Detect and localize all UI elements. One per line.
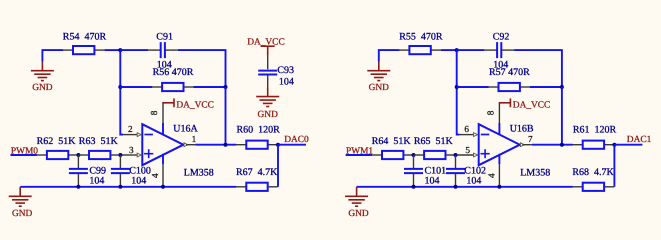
wire: feedback column down to output [561, 87, 563, 145]
junction: C99 bottom [76, 185, 80, 189]
svg-text:4: 4 [150, 173, 160, 178]
pin 8 (V+) [162, 123, 164, 135]
svg-text:1: 1 [192, 134, 197, 144]
capacitor C92 104 [484, 49, 497, 51]
svg-text:GND: GND [258, 110, 279, 120]
pin 1 (output) [184, 143, 188, 147]
junction: R57 left [455, 85, 459, 89]
junction: C101 bottom [412, 185, 416, 189]
ground GND (decoupling) [267, 87, 269, 97]
resistor R61 120R [573, 144, 583, 146]
wire: C91 to feedback column [178, 50, 226, 87]
svg-text:R56 470R: R56 470R [153, 67, 194, 78]
svg-text:DAC0: DAC0 [284, 135, 309, 145]
svg-text:LM358: LM358 [520, 168, 550, 179]
svg-text:104: 104 [279, 77, 294, 88]
wire: node B column down to pin6 corner [457, 50, 460, 135]
power DA_VCC at pin 8 [499, 102, 511, 104]
junction: C99 top [76, 153, 80, 157]
wire: R55 to node B [441, 49, 457, 51]
svg-text:C93: C93 [277, 65, 294, 76]
wire: R56 to feedback column [194, 86, 226, 88]
svg-text:104: 104 [466, 175, 481, 186]
junction: feedback column at R56 [224, 85, 228, 89]
pin 5 (non-inverting input) [457, 154, 473, 156]
pin 3 (non-inverting input) [121, 154, 137, 156]
junction: feedback at output [560, 143, 564, 147]
capacitor C101 [413, 155, 415, 169]
svg-text:GND: GND [369, 83, 390, 93]
svg-text:R65 51K: R65 51K [414, 136, 454, 147]
junction: C100 top [118, 153, 122, 157]
svg-text:U16B: U16B [510, 123, 534, 134]
pin 2 (inverting input) [123, 134, 137, 136]
capacitor C93 104 [267, 56, 269, 69]
svg-text:4: 4 [487, 173, 497, 178]
pin 7 (output) [520, 143, 524, 147]
wire: GND stub to R54 [42, 50, 63, 61]
wire: junction to R57 [457, 86, 489, 88]
junction: C100 bottom [118, 185, 122, 189]
wire: DAC0 net [278, 144, 306, 146]
resistor R65 [414, 154, 424, 156]
svg-text:5: 5 [465, 145, 470, 155]
capacitor C102 [455, 155, 457, 169]
svg-text:DA_VCC: DA_VCC [513, 100, 551, 110]
junction: feedback column at R57 [560, 85, 564, 89]
svg-text:GND: GND [348, 209, 369, 219]
svg-text:2: 2 [128, 124, 133, 134]
junction: C102 bottom [454, 185, 458, 189]
wire: node A column down to pin2 corner [120, 50, 123, 135]
ground GND (bias, left of R55) [378, 61, 380, 70]
wire: R54 to node A [105, 49, 121, 51]
svg-text:8: 8 [149, 110, 159, 115]
junction: DAC0 node [276, 143, 280, 147]
wire: PWM1 to R64 [346, 154, 372, 156]
svg-text:R57 470R: R57 470R [489, 67, 530, 78]
power DA_VCC at pin 8 [162, 102, 174, 104]
svg-text:R63 51K: R63 51K [79, 136, 119, 147]
svg-text:R62 51K: R62 51K [37, 136, 77, 147]
wire: node A to C91 [120, 49, 148, 51]
svg-text:R55 470R: R55 470R [399, 31, 443, 42]
svg-text:C92: C92 [493, 32, 510, 43]
resistor R55 470R [399, 49, 409, 51]
wire: DAC1 node down to R68 [613, 145, 615, 187]
svg-text:DAC1: DAC1 [627, 135, 652, 145]
resistor R68 4.7K [573, 186, 583, 188]
svg-text:104: 104 [425, 175, 440, 186]
junction: pin 4 at rail [497, 185, 501, 189]
svg-text:GND: GND [32, 83, 53, 93]
svg-text:R54 470R: R54 470R [63, 31, 107, 42]
wire: PWM0 to R62 [11, 154, 37, 156]
svg-text:104: 104 [131, 175, 146, 186]
wire: junction to R56 [120, 86, 152, 88]
wire: DAC0 node down to R67 [277, 145, 279, 187]
junction: feedback at output [224, 143, 228, 147]
wire: GND stub to R55 [379, 50, 400, 61]
junction: R56 left [118, 85, 122, 89]
resistor R56 470R [152, 86, 162, 88]
svg-text:R68 4.7K: R68 4.7K [572, 167, 614, 178]
node A junction [118, 48, 122, 52]
svg-text:3: 3 [129, 145, 134, 155]
capacitor C99 [77, 155, 79, 169]
svg-text:104: 104 [89, 175, 104, 186]
pin 6 (inverting input) [459, 134, 473, 136]
node B junction [455, 48, 459, 52]
ground GND (bottom rail) [356, 187, 358, 197]
resistor R62 [37, 154, 47, 156]
svg-text:R61 120R: R61 120R [573, 125, 617, 136]
wire: feedback column down to output [225, 87, 227, 145]
svg-text:DA_VCC: DA_VCC [176, 100, 214, 110]
svg-text:7: 7 [528, 134, 533, 144]
junction: C101 top [412, 153, 416, 157]
svg-text:R67 4.7K: R67 4.7K [236, 167, 278, 178]
svg-text:GND: GND [12, 209, 33, 219]
wire: pin 1 to R60 [195, 144, 236, 146]
svg-text:LM358: LM358 [184, 168, 214, 179]
resistor R54 470R [63, 49, 73, 51]
resistor R63 [79, 154, 89, 156]
svg-text:R60 120R: R60 120R [237, 125, 281, 136]
ground GND (bias, left of R54) [41, 61, 43, 70]
junction: C102 top [454, 153, 458, 157]
svg-text:U16A: U16A [173, 123, 198, 134]
wire: pin 7 to R61 [532, 144, 573, 146]
svg-text:R64 51K: R64 51K [372, 136, 412, 147]
op-amp U16A LM358 [142, 124, 183, 165]
svg-text:8: 8 [486, 110, 496, 115]
wire: node B to C92 [457, 49, 485, 51]
pin 8 (V+) [498, 123, 500, 135]
op-amp U16B LM358 [479, 124, 520, 165]
junction: DAC1 node [612, 143, 616, 147]
pin 4 (V-) [162, 154, 164, 165]
wire: R57 to feedback column [530, 86, 562, 88]
wire: bottom ground rail [357, 186, 573, 188]
pin 4 (V-) [498, 154, 500, 165]
resistor R60 120R [236, 144, 246, 146]
resistor R64 [372, 154, 382, 156]
wire: bottom ground rail [20, 186, 236, 188]
wire: DAC1 net [614, 144, 642, 146]
resistor R67 4.7K [236, 186, 246, 188]
resistor R57 470R [488, 86, 498, 88]
junction: pin 4 at rail [161, 185, 165, 189]
capacitor C91 104 [148, 49, 161, 51]
svg-text:6: 6 [464, 124, 469, 134]
svg-text:C91: C91 [156, 32, 173, 43]
ground GND (bottom rail) [19, 187, 21, 197]
wire: C92 to feedback column [514, 50, 562, 87]
capacitor C100 [119, 155, 121, 169]
